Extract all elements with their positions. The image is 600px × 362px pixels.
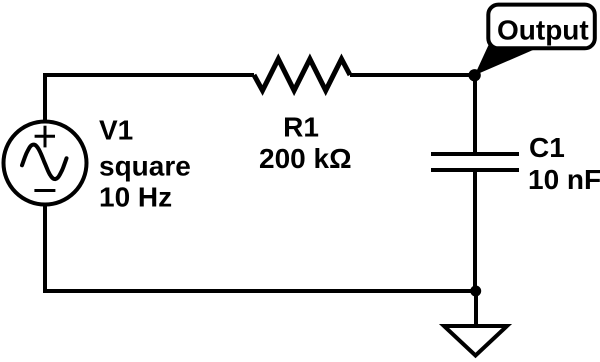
svg-text:V1: V1: [99, 115, 133, 146]
svg-text:10 Hz: 10 Hz: [99, 182, 172, 213]
svg-text:R1: R1: [283, 111, 319, 142]
svg-text:C1: C1: [529, 132, 565, 163]
svg-text:10 nF: 10 nF: [528, 164, 600, 195]
svg-text:Output: Output: [497, 15, 589, 46]
svg-text:200 kΩ: 200 kΩ: [259, 143, 352, 174]
svg-text:square: square: [99, 151, 191, 182]
